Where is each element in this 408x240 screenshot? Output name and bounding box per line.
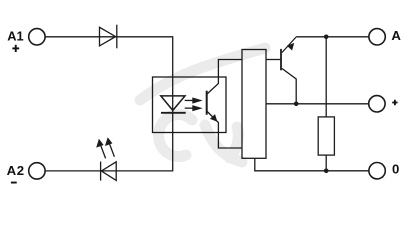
svg-text:A1: A1 <box>7 29 23 44</box>
svg-text:0: 0 <box>392 162 399 177</box>
svg-text:A: A <box>391 28 401 43</box>
svg-text:A2: A2 <box>7 163 25 178</box>
